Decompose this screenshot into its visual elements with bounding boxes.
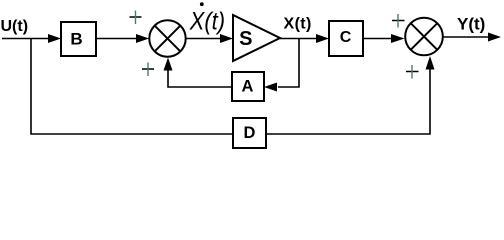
- svg-text:A: A: [242, 78, 254, 96]
- svg-text:U(t): U(t): [1, 18, 29, 35]
- svg-text:X(t): X(t): [284, 16, 312, 33]
- svg-text:X(t): X(t): [189, 7, 225, 35]
- svg-text:D: D: [244, 124, 256, 142]
- svg-text:Y(t): Y(t): [457, 15, 485, 34]
- svg-text:B: B: [70, 30, 82, 49]
- svg-text:S: S: [239, 28, 252, 50]
- svg-text:C: C: [340, 29, 352, 46]
